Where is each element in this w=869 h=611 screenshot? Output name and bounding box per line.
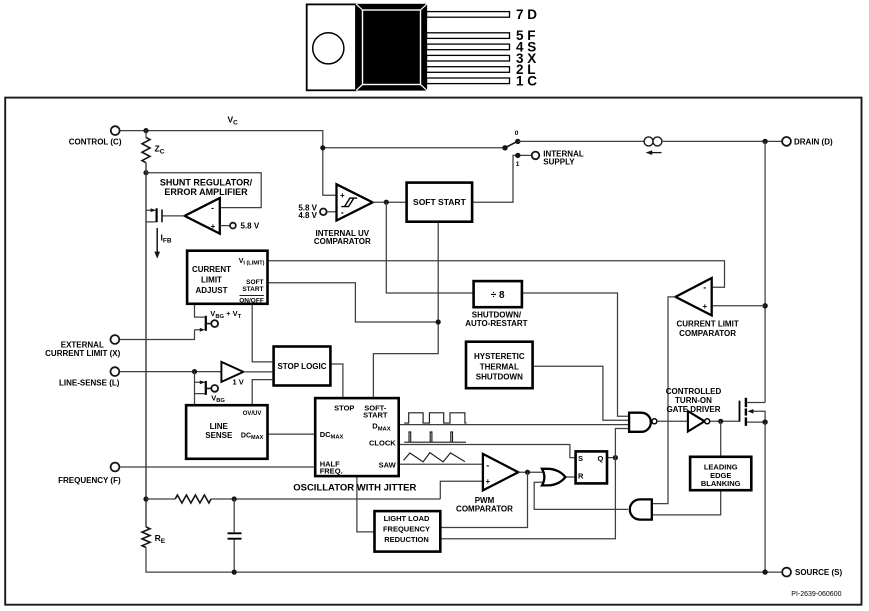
- wire soft start box to switch contact 1: [472, 155, 532, 202]
- svg-text:PI-2639-060600: PI-2639-060600: [791, 591, 841, 598]
- wire soft start adjust from current limit adjust box: [268, 283, 439, 322]
- wire OR gate output to latch R input: [565, 476, 575, 478]
- svg-text:START: START: [242, 286, 263, 293]
- buffer U7 controlled turn-on gate driver: [688, 411, 705, 431]
- node UV output junction: [384, 200, 389, 205]
- waveform SAW triangle wave: [404, 453, 465, 462]
- capacitor C1: [228, 499, 242, 572]
- wire drain vertical: [764, 141, 766, 402]
- terminal UV threshold 5.8V/4.8V: [320, 209, 327, 216]
- wire PWM output down to light load frequency reduction: [440, 472, 527, 527]
- wire gate driver output to MOSFET gate: [710, 401, 740, 422]
- svg-text:OSCILLATOR WITH JITTER: OSCILLATOR WITH JITTER: [293, 482, 416, 493]
- wire DMAX from oscillator to NAND input: [399, 424, 629, 426]
- node switch contact 1: [515, 153, 520, 158]
- wire VC: CONTROL pin to switch pivot: [120, 131, 503, 148]
- waveform CLOCK pulses: [404, 432, 466, 442]
- op-amp U4 current limit comparator: [676, 278, 712, 315]
- svg-text:R: R: [578, 472, 584, 481]
- wire Q1 source down control rail: [145, 222, 147, 527]
- svg-text:FREQUENCY: FREQUENCY: [383, 525, 430, 534]
- wire error amp output to Q1 gate: [162, 215, 185, 217]
- node soft start adjust junction: [436, 319, 441, 324]
- node feedback junction: [143, 170, 148, 175]
- svg-text:HYSTERETIC: HYSTERETIC: [474, 352, 525, 361]
- svg-text:START: START: [363, 411, 388, 420]
- node gate drive junction: [718, 419, 723, 424]
- svg-text:-: -: [341, 208, 344, 218]
- wire buffer output to stop logic: [243, 371, 272, 373]
- terminal FREQUENCY F: [111, 463, 120, 472]
- waveform DMAX square wave: [404, 413, 466, 423]
- wire FREQUENCY pin to oscillator HALF FREQ input: [119, 466, 315, 468]
- svg-text:-: -: [486, 461, 489, 471]
- and-gate G3 left facing: [630, 499, 652, 519]
- svg-text:COMPARATOR: COMPARATOR: [679, 329, 736, 338]
- wire feedback RC node: [146, 481, 483, 499]
- wire control rail bottom resistor section: [146, 163, 782, 572]
- switch auto-restart lever: [505, 141, 519, 148]
- pin 7 lead: [427, 12, 510, 18]
- svg-text:CONTROL (C): CONTROL (C): [69, 137, 122, 146]
- box current limit adjust: [187, 251, 267, 304]
- node switch pivot: [502, 145, 507, 150]
- node Q junction: [613, 455, 618, 460]
- svg-text:-: -: [211, 203, 214, 213]
- svg-text:SOFT START: SOFT START: [413, 197, 467, 207]
- wire divide-by-8 output to NAND input: [522, 293, 629, 416]
- transistor Q1 shunt regulator MOSFET: [146, 208, 162, 222]
- node VC junction: [320, 145, 325, 150]
- wire leading edge blanking output to bottom AND gate: [652, 490, 721, 515]
- wire OV/UV from line sense to stop logic: [252, 380, 272, 406]
- wire current source to DRAIN pin: [662, 140, 782, 142]
- wire UV comparator plus input from VC node: [323, 148, 337, 195]
- transistor Q2 current limit adjust MOSFET: [195, 304, 212, 332]
- hysteresis symbol inside UV comparator: [341, 198, 357, 207]
- svg-text:OV/UV: OV/UV: [243, 411, 262, 417]
- svg-text:+: +: [211, 222, 216, 231]
- wire Q up to NAND input: [615, 429, 629, 458]
- or-gate G2: [542, 469, 565, 486]
- svg-text:+: +: [340, 191, 345, 200]
- node switch contact 0: [515, 139, 520, 144]
- box divide by 8: [474, 281, 522, 307]
- wire SAW from oscillator to PWM comparator minus: [399, 463, 483, 465]
- package TO-220 tab: [307, 4, 356, 90]
- svg-text:ADJUST: ADJUST: [195, 286, 227, 295]
- op-amp U3 internal UV comparator: [337, 184, 373, 220]
- svg-text:+: +: [702, 302, 707, 311]
- svg-text:BLANKING: BLANKING: [701, 479, 741, 488]
- svg-text:ERROR AMPLIFIER: ERROR AMPLIFIER: [164, 187, 248, 197]
- svg-text:1 V: 1 V: [233, 378, 244, 387]
- transistor Q3 line sense MOSFET: [195, 372, 212, 406]
- package body: [356, 4, 427, 91]
- svg-text:COMPARATOR: COMPARATOR: [314, 237, 371, 246]
- svg-text:THERMAL: THERMAL: [480, 363, 519, 372]
- pin 3 lead: [427, 55, 510, 61]
- svg-text:COMPARATOR: COMPARATOR: [456, 505, 513, 514]
- svg-text:CURRENT LIMIT: CURRENT LIMIT: [676, 319, 738, 328]
- wire current limit comparator plus input: [712, 305, 765, 307]
- terminal Q3 gate VBG: [211, 385, 218, 392]
- wire PWM comparator output to OR gate: [518, 471, 542, 473]
- svg-text:CURRENT: CURRENT: [192, 265, 231, 274]
- wire UV comparator output to soft start box: [373, 201, 407, 203]
- wire latch Q output: [607, 457, 615, 459]
- wire current limit comparator output to bottom AND gate: [652, 297, 676, 504]
- terminal Q2 gate VBG+VT: [211, 320, 218, 327]
- wire Q down to light load frequency reduction: [440, 458, 615, 539]
- svg-text:S: S: [578, 454, 583, 463]
- wire NAND output to gate driver: [657, 420, 688, 422]
- wire ON/OFF from current limit adjust to stop logic: [252, 304, 272, 362]
- svg-text:SHUTDOWN: SHUTDOWN: [476, 373, 523, 382]
- wire VI(LIMIT) to current limit comparator minus input: [268, 261, 725, 287]
- node control junction at ZC top: [143, 128, 148, 133]
- terminal SOURCE S: [782, 568, 791, 577]
- svg-text:ON/OFF: ON/OFF: [239, 297, 264, 304]
- wire ZC top stub: [145, 131, 147, 138]
- svg-text:SAW: SAW: [379, 461, 397, 470]
- box stop logic: [274, 347, 331, 386]
- svg-text:-: -: [703, 283, 706, 293]
- svg-text:DRAIN (D): DRAIN (D): [794, 138, 833, 147]
- svg-text:LINE-SENSE (L): LINE-SENSE (L): [59, 378, 120, 387]
- terminal INTERNAL SUPPLY: [532, 152, 540, 160]
- wire switch contact 0 to current source: [518, 140, 644, 142]
- resistor ZC: [142, 138, 150, 163]
- nand-gate G1: [629, 413, 651, 432]
- wire EXTERNAL CURRENT LIMIT X pin to Q2 source: [119, 330, 194, 340]
- wire feedback loop to error amp minus input: [146, 173, 261, 208]
- latch U6 SR: [576, 451, 607, 483]
- svg-text:REDUCTION: REDUCTION: [384, 535, 429, 544]
- svg-text:FREQUENCY (F): FREQUENCY (F): [58, 476, 121, 485]
- wire DCMAX from line sense to oscillator: [268, 433, 316, 435]
- op-amp U5 PWM comparator: [483, 454, 518, 491]
- wire LINE-SENSE L pin to 1V buffer: [119, 371, 221, 373]
- svg-text:7 D: 7 D: [516, 7, 537, 22]
- svg-text:1: 1: [516, 161, 520, 168]
- node source junction: [762, 419, 767, 424]
- svg-text:÷ 8: ÷ 8: [491, 290, 505, 301]
- wire stop logic output to oscillator STOP input: [330, 364, 343, 397]
- pin 2 lead: [427, 67, 510, 73]
- wire MOSFET source down to source rail: [764, 422, 766, 572]
- svg-text:CURRENT LIMIT (X): CURRENT LIMIT (X): [45, 349, 120, 358]
- box soft start: [407, 183, 473, 222]
- terminal LINE-SENSE L: [111, 367, 120, 376]
- svg-text:LIMIT: LIMIT: [201, 275, 222, 284]
- svg-text:SOURCE (S): SOURCE (S): [795, 568, 842, 577]
- pin 4 lead: [427, 44, 510, 50]
- wire CLOCK from oscillator to latch S input: [399, 445, 576, 458]
- box oscillator with jitter: [315, 398, 399, 476]
- svg-text:GATE DRIVER: GATE DRIVER: [666, 405, 720, 414]
- current arrow IFB: [154, 228, 160, 259]
- resistor feedback horizontal: [175, 495, 211, 503]
- svg-text:AUTO-RESTART: AUTO-RESTART: [465, 319, 527, 328]
- box line sense: [186, 405, 267, 459]
- box light load frequency reduction: [375, 511, 441, 551]
- op-amp U2 1V line sense buffer: [221, 362, 243, 382]
- terminal CONTROL C: [111, 126, 120, 135]
- svg-text:TURN-ON: TURN-ON: [675, 396, 712, 405]
- wire bottom AND output to OR gate lower input: [534, 482, 628, 509]
- wire ZC bottom to error amp node: [145, 163, 147, 211]
- node current limit comparator plus tap: [762, 303, 767, 308]
- svg-text:STOP LOGIC: STOP LOGIC: [277, 362, 326, 371]
- node drain junction: [762, 139, 767, 144]
- node RE top junction: [143, 496, 148, 501]
- wire UV comparator minus stub: [327, 211, 337, 213]
- wire thermal shutdown output to NAND input: [533, 366, 630, 420]
- wire oscillator bottom to light load frequency reduction: [357, 476, 375, 532]
- node source rail junction: [762, 569, 767, 574]
- svg-text:1 C: 1 C: [516, 73, 537, 88]
- svg-text:SUPPLY: SUPPLY: [543, 158, 575, 167]
- wire soft start box bottom to oscillator SOFT-START input: [373, 222, 438, 397]
- wire leading edge blanking input: [720, 421, 722, 457]
- terminal DRAIN D: [782, 137, 791, 146]
- svg-text:5.8 V: 5.8 V: [241, 222, 260, 231]
- node capacitor bottom junction: [232, 570, 237, 575]
- svg-text:SOFT: SOFT: [246, 279, 263, 286]
- terminal 5.8 V reference: [230, 223, 236, 229]
- node L junction: [192, 369, 197, 374]
- svg-text:CLOCK: CLOCK: [369, 439, 396, 448]
- box leading edge blanking: [690, 457, 751, 490]
- svg-text:FREQ.: FREQ.: [320, 466, 343, 475]
- wire UV output down to divide-by-8 input: [386, 202, 473, 293]
- pin 1 lead: [427, 78, 510, 84]
- package mounting hole: [313, 33, 344, 64]
- resistor RE: [142, 527, 150, 547]
- svg-text:4.8 V: 4.8 V: [298, 211, 317, 220]
- svg-text:0: 0: [515, 130, 519, 137]
- svg-text:EXTERNAL: EXTERNAL: [61, 340, 104, 349]
- terminal EXTERNAL CURRENT LIMIT X: [111, 335, 120, 344]
- svg-text:CONTROLLED: CONTROLLED: [666, 387, 722, 396]
- svg-text:SENSE: SENSE: [205, 431, 233, 440]
- node capacitor top junction: [232, 496, 237, 501]
- svg-text:Q: Q: [598, 454, 604, 463]
- svg-text:LIGHT LOAD: LIGHT LOAD: [384, 514, 430, 523]
- pin 5 lead: [427, 33, 510, 39]
- transistor Q4 output power MOSFET: [740, 398, 766, 426]
- box hysteretic thermal shutdown: [466, 342, 533, 389]
- wire 5.8V reference stub: [220, 225, 230, 227]
- svg-text:STOP: STOP: [334, 404, 354, 413]
- op-amp U1 shunt regulator / error amplifier: [185, 198, 220, 234]
- svg-text:+: +: [485, 477, 490, 486]
- node PWM output junction: [525, 470, 530, 475]
- current source I1: [644, 137, 662, 155]
